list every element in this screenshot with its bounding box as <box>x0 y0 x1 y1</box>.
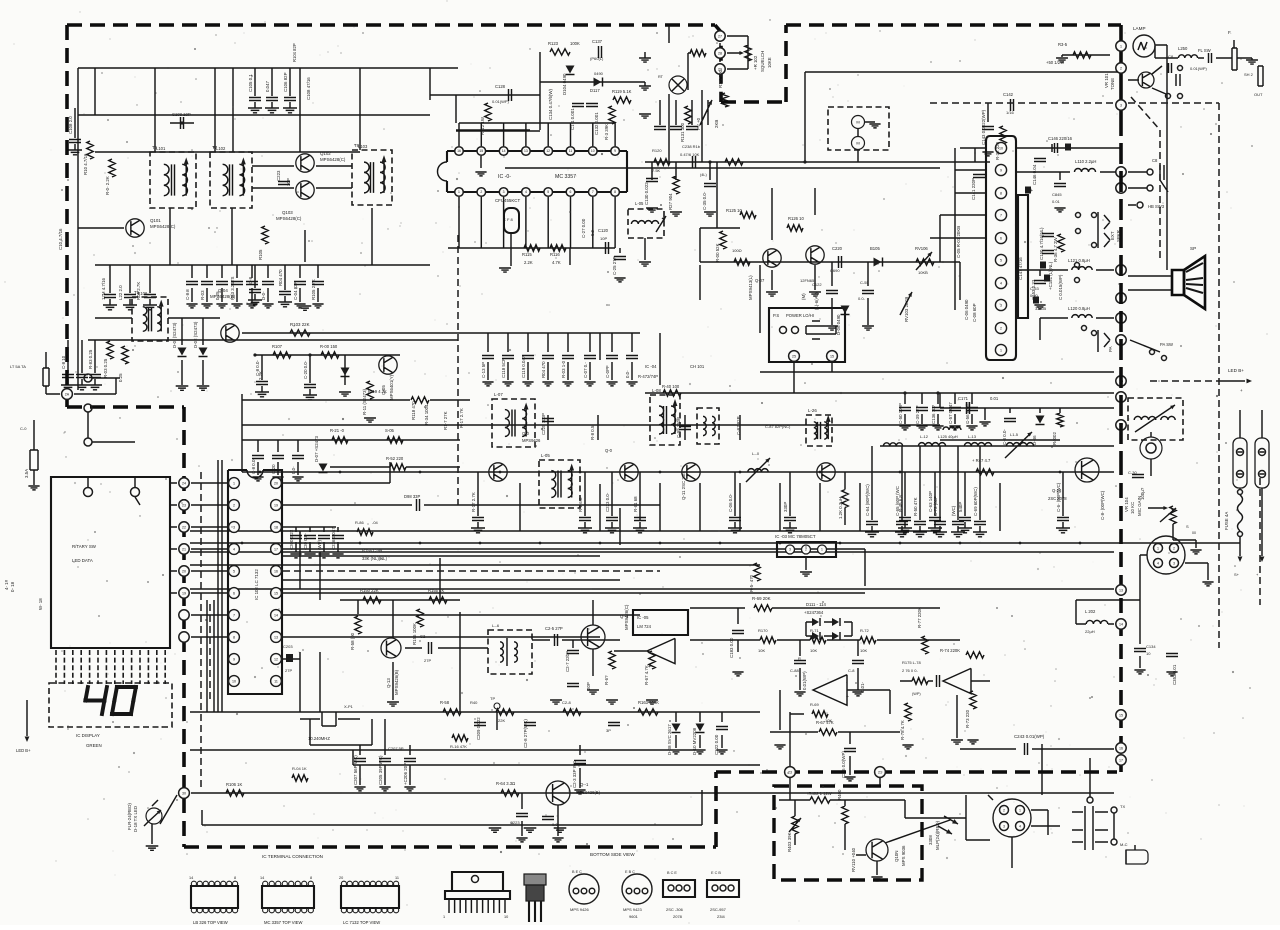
svg-text:12: 12 <box>274 657 278 661</box>
svg-text:FLR-24(RED): FLR-24(RED) <box>127 803 132 830</box>
svg-text:C-8 0.0-: C-8 0.0- <box>251 458 256 474</box>
svg-text:D-06 0490: D-06 0490 <box>836 314 841 335</box>
svg-text:2: 2 <box>1173 546 1175 550</box>
svg-text:R-73 220: R-73 220 <box>965 709 970 728</box>
svg-text:BOTTOM SIDE VIEW: BOTTOM SIDE VIEW <box>590 852 635 857</box>
svg-text:C103 10P: C103 10P <box>172 112 191 117</box>
svg-text:L-26: L-26 <box>808 408 817 413</box>
svg-text:D-0- (S2473): D-0- (S2473) <box>172 322 177 348</box>
svg-text:2: 2 <box>1003 808 1005 812</box>
svg-text:R125 10: R125 10 <box>726 208 743 213</box>
svg-text:R4002: R4002 <box>1052 432 1057 445</box>
svg-text:C 0.015(WP): C 0.015(WP) <box>1058 274 1063 300</box>
svg-text:C147 47/16: C147 47/16 <box>1018 257 1023 280</box>
svg-text:D-10 MV2208: D-10 MV2208 <box>692 727 697 755</box>
svg-text:R104 82P: R104 82P <box>292 43 297 62</box>
svg-text:MPS6428(C): MPS6428(C) <box>276 216 302 221</box>
svg-text:3: 3 <box>503 190 505 194</box>
svg-text:C108 2.0: C108 2.0 <box>68 116 73 134</box>
svg-text:C118 5CP: C118 5CP <box>501 358 506 378</box>
svg-text:7: 7 <box>1000 213 1002 217</box>
svg-text:C205 39P WC): C205 39P WC) <box>378 755 383 785</box>
svg-text:B C E: B C E <box>667 871 677 875</box>
svg-text:E C B: E C B <box>711 871 721 875</box>
svg-text:R-03 0.25: R-03 0.25 <box>103 358 108 378</box>
svg-text:0.0-: 0.0- <box>590 228 595 236</box>
svg-text:0.01(WP): 0.01(WP) <box>492 99 510 104</box>
svg-text:LED B+: LED B+ <box>1228 368 1244 373</box>
svg-text:+ R47 4.7: + R47 4.7 <box>972 458 991 463</box>
svg-text:8: 8 <box>1000 191 1002 195</box>
svg-text:0.01(WP): 0.01(WP) <box>802 671 807 690</box>
svg-text:3: 3 <box>233 525 235 529</box>
svg-text:C143 0.0022(WP): C143 0.0022(WP) <box>981 109 986 145</box>
svg-text:C207 56P(WC): C207 56P(WC) <box>353 755 358 785</box>
svg-text:C2-7 220P: C2-7 220P <box>565 651 570 672</box>
svg-text:2 76 0 0-: 2 76 0 0- <box>902 668 918 673</box>
svg-text:D-02 (S2473): D-02 (S2473) <box>193 321 198 348</box>
svg-text:L-05: L-05 <box>541 453 550 458</box>
svg-text:E B C: E B C <box>625 870 635 874</box>
svg-text:TP: TP <box>490 696 495 701</box>
svg-text:L101: L101 <box>156 146 166 151</box>
svg-text:0.0-: 0.0- <box>552 822 560 827</box>
svg-text:+R402 1 12W: +R402 1 12W <box>806 791 832 796</box>
svg-text:23: 23 <box>182 503 186 507</box>
svg-text:C-25 27P: C-25 27P <box>612 256 617 275</box>
svg-text:4: 4 <box>1019 824 1021 828</box>
svg-text:4: 4 <box>233 547 235 551</box>
svg-text:RV106: RV106 <box>915 246 928 251</box>
svg-text:L110 2.2µH: L110 2.2µH <box>1075 159 1096 164</box>
svg-text:D117: D117 <box>590 88 600 93</box>
svg-text:1: 1 <box>1157 546 1159 550</box>
svg-text:MIC GAIN: MIC GAIN <box>1137 496 1142 516</box>
svg-text:C-20: C-20 <box>271 464 276 474</box>
svg-text:R116: R116 <box>550 252 560 257</box>
svg-text:C-99 330P: C-99 330P <box>676 417 681 438</box>
svg-text:8: 8 <box>310 876 312 880</box>
svg-text:MPS9426(B): MPS9426(B) <box>576 790 601 795</box>
svg-text:C150 4.7/16(NL): C150 4.7/16(NL) <box>1039 227 1044 260</box>
svg-text:0.01(WP): 0.01(WP) <box>1190 66 1208 71</box>
svg-text:33//35: 33//35 <box>1035 306 1047 311</box>
svg-text:15: 15 <box>1119 713 1123 717</box>
svg-text:13: 13 <box>274 635 278 639</box>
svg-text:R119 5.1K: R119 5.1K <box>612 89 632 94</box>
svg-text:B E C: B E C <box>572 870 582 874</box>
svg-text:R126 10: R126 10 <box>788 216 805 221</box>
svg-text:S-05: S-05 <box>385 428 395 433</box>
svg-text:C-0: C-0 <box>20 426 27 431</box>
svg-text:TX: TX <box>1120 804 1125 809</box>
svg-text:14: 14 <box>502 149 506 153</box>
svg-text:C-27 0.00: C-27 0.00 <box>581 218 586 238</box>
svg-text:C8: C8 <box>1168 54 1174 59</box>
svg-text:C-87 82P(NC): C-87 82P(NC) <box>765 424 791 429</box>
svg-text:C690: C690 <box>830 268 840 273</box>
svg-text:C136 10?: C136 10? <box>931 404 936 424</box>
svg-text:16: 16 <box>1119 746 1123 750</box>
svg-text:R-21 -0: R-21 -0 <box>330 428 345 433</box>
svg-text:4: 4 <box>525 190 527 194</box>
svg-text:L125 40µH: L125 40µH <box>938 434 958 439</box>
svg-text:CH 101: CH 101 <box>690 364 705 369</box>
svg-text:22: 22 <box>182 525 186 529</box>
svg-text:IC 102 LC 7132: IC 102 LC 7132 <box>254 569 259 600</box>
svg-text:8: 8 <box>233 635 235 639</box>
svg-text:C-8 0.0-: C-8 0.0- <box>255 360 260 376</box>
svg-text:C236 0.047: C236 0.047 <box>331 527 336 550</box>
svg-text:23I4: 23I4 <box>717 914 726 919</box>
svg-text:R-8 0.5: R-8 0.5 <box>590 425 595 440</box>
svg-text:L1-5: L1-5 <box>1010 432 1019 437</box>
svg-text:17: 17 <box>274 547 278 551</box>
svg-text:0- 18: 0- 18 <box>10 581 15 592</box>
svg-text:R105: R105 <box>258 249 263 260</box>
svg-text:33K (NL)(NL): 33K (NL)(NL) <box>362 556 388 561</box>
svg-text:10: 10 <box>1146 651 1151 656</box>
svg-text:R27 904: R27 904 <box>668 193 673 210</box>
svg-text:SH 2: SH 2 <box>1244 72 1254 77</box>
svg-text:17M 4.7/16: 17M 4.7/16 <box>101 277 106 300</box>
svg-text:7: 7 <box>233 613 235 617</box>
svg-text:S+: S+ <box>1234 572 1240 577</box>
svg-text:L106: L106 <box>138 291 148 296</box>
svg-text:C-50 100P: C-50 100P <box>898 403 903 424</box>
svg-text:0490: 0490 <box>594 71 604 76</box>
svg-text:9: 9 <box>614 149 616 153</box>
svg-text:C119 0.047: C119 0.047 <box>521 355 526 378</box>
svg-text:9601: 9601 <box>629 914 639 919</box>
svg-text:R123: R123 <box>548 41 559 46</box>
svg-text:2.2K: 2.2K <box>524 260 533 265</box>
svg-text:R-3 39K: R-3 39K <box>604 124 609 140</box>
svg-text:1: 1 <box>1019 808 1021 812</box>
svg-text:1: 1 <box>1120 44 1122 48</box>
svg-text:C-55: C-55 <box>860 280 869 285</box>
svg-text:R118 470: R118 470 <box>411 401 416 420</box>
svg-text:C142: C142 <box>1003 92 1014 97</box>
svg-text:0.01-: 0.01- <box>860 681 865 692</box>
svg-text:R-04 1K: R-04 1K <box>292 766 307 771</box>
svg-text:C353 0.01: C353 0.01 <box>1172 664 1177 685</box>
svg-text:C-53: C-53 <box>1030 286 1039 291</box>
svg-text:+C206 20P: +C206 20P <box>403 763 408 785</box>
svg-text:R-17 2.7K: R-17 2.7K <box>471 492 476 512</box>
svg-text:10K: 10K <box>758 648 765 653</box>
svg-text:16: 16 <box>457 149 461 153</box>
svg-text:C845: C845 <box>1052 192 1062 197</box>
svg-text:1: 1 <box>821 548 823 552</box>
svg-text:20: 20 <box>274 481 278 485</box>
svg-text:C2-5 27P: C2-5 27P <box>545 626 563 631</box>
svg-text:-04: -04 <box>372 520 379 525</box>
svg-text:C-0PF: C-0PF <box>605 365 610 378</box>
svg-text:R-2 6.8: R-2 6.8 <box>578 497 583 512</box>
svg-text:3.5A: 3.5A <box>24 469 29 478</box>
svg-text:22K: 22K <box>498 718 505 723</box>
svg-text:IC -04: IC -04 <box>645 364 657 369</box>
svg-text:(L)-6(AL): (L)-6(AL) <box>814 292 819 310</box>
svg-text:(WP): (WP) <box>912 692 921 696</box>
svg-text:2: 2 <box>480 190 482 194</box>
svg-text:10K: 10K <box>860 648 867 653</box>
svg-text:C-13 5P: C-13 5P <box>481 362 486 378</box>
svg-text:R170: R170 <box>758 628 768 633</box>
svg-text:C-72 (80P: C-72 (80P <box>933 496 938 516</box>
svg-text:M: M <box>856 119 859 124</box>
svg-text:C2-3 33P WC: C2-3 33P WC <box>572 761 577 788</box>
svg-text:R-86: R-86 <box>355 520 364 525</box>
svg-text:L--0: L--0 <box>752 451 760 456</box>
svg-text:R1-1 500: R1-1 500 <box>718 69 723 88</box>
svg-text:IC -0-: IC -0- <box>498 174 511 180</box>
svg-text:3: 3 <box>1003 824 1005 828</box>
svg-text:2078: 2078 <box>673 914 683 919</box>
svg-text:11: 11 <box>274 679 278 683</box>
svg-text:+: + <box>648 664 651 670</box>
svg-text:27P: 27P <box>285 668 292 673</box>
svg-text:C-30: C-30 <box>1128 470 1137 475</box>
svg-text:0.0-: 0.0- <box>291 466 296 474</box>
svg-text:R-58: R-58 <box>440 700 450 705</box>
svg-text:R-50 47K: R-50 47K <box>913 497 918 516</box>
svg-text:C220: C220 <box>832 246 843 251</box>
svg-text:L102: L102 <box>216 146 226 151</box>
svg-text:EXT: EXT <box>1110 231 1115 240</box>
svg-text:0.25: 0.25 <box>215 291 220 300</box>
svg-text:10: 10 <box>232 679 236 683</box>
svg-text:00: 00 <box>1192 531 1196 535</box>
svg-text:C-8 10: C-8 10 <box>61 355 66 369</box>
svg-text:R-0- 2.2K: R-0- 2.2K <box>105 176 110 195</box>
svg-text:TONE: TONE <box>1110 78 1115 90</box>
svg-text:D-07 +S2473: D-07 +S2473 <box>314 435 319 462</box>
svg-text:PA SW: PA SW <box>1160 342 1173 347</box>
svg-text:2: 2 <box>805 548 807 552</box>
svg-text:L-13: L-13 <box>968 434 977 439</box>
svg-text:C2--: C2-- <box>420 634 429 639</box>
svg-text:C183 0.00: C183 0.00 <box>729 637 734 658</box>
svg-text:C146 0.04: C146 0.04 <box>1032 164 1037 185</box>
svg-text:IC DISPLAY: IC DISPLAY <box>76 733 100 738</box>
svg-text:+S247364: +S247364 <box>804 610 824 615</box>
svg-text:R-74 220K: R-74 220K <box>940 648 960 653</box>
svg-text:Q10N: Q10N <box>894 851 899 862</box>
svg-text:L-08: L-08 <box>652 388 661 393</box>
svg-text:C122: C122 <box>812 282 822 287</box>
svg-text:R-32 220: R-32 220 <box>995 141 1000 160</box>
svg-text:C-39 27P: C-39 27P <box>915 405 920 424</box>
svg-text:10: 10 <box>504 915 508 919</box>
svg-text:1.2K 0.3µH: 1.2K 0.3µH <box>838 497 843 519</box>
svg-text:Q101: Q101 <box>150 218 161 223</box>
svg-text:C2-6 0.0(WP): C2-6 0.0(WP) <box>841 751 846 778</box>
svg-text:30: 30 <box>182 791 186 795</box>
svg-text:0.01: 0.01 <box>990 396 999 401</box>
svg-text:R400: R400 <box>837 789 842 800</box>
svg-text:C-07 0.-: C-07 0.- <box>583 362 588 378</box>
svg-text:3P: 3P <box>606 728 611 733</box>
svg-text:L121 0.8µH: L121 0.8µH <box>1068 258 1090 263</box>
svg-text:R115: R115 <box>522 252 532 257</box>
svg-text:C120: C120 <box>598 228 609 233</box>
svg-text:4- 1#: 4- 1# <box>4 579 9 590</box>
svg-text:Q-13: Q-13 <box>386 678 391 688</box>
svg-text:C2-8 27P(WC): C2-8 27P(WC) <box>523 719 528 748</box>
svg-text:R-03: R-03 <box>200 290 205 300</box>
svg-text:L120 0.8µH: L120 0.8µH <box>1068 306 1090 311</box>
svg-text:1: 1 <box>443 915 445 919</box>
svg-text:MLP(24)(RED): MLP(24)(RED) <box>935 820 940 850</box>
svg-text:LED B+: LED B+ <box>16 748 31 753</box>
svg-text:LB 326 TOP VIEW: LB 326 TOP VIEW <box>193 920 228 925</box>
svg-text:R106 1K: R106 1K <box>226 782 243 787</box>
svg-text:R: R <box>798 656 801 661</box>
svg-text:D104 0490: D104 0490 <box>562 73 567 95</box>
svg-text:C203: C203 <box>283 644 293 649</box>
svg-text:8: 8 <box>614 190 616 194</box>
svg-text:20: 20 <box>182 569 186 573</box>
svg-text:R-00 52K: R-00 52K <box>715 243 720 262</box>
svg-text:3: 3 <box>1120 103 1122 107</box>
svg-text:SP: SP <box>1190 246 1196 251</box>
svg-text:C209 0.022: C209 0.022 <box>476 717 481 740</box>
svg-text:C137: C137 <box>592 39 603 44</box>
svg-text:R150 22K: R150 22K <box>360 588 379 593</box>
svg-text:C-69 60P(WC): C-69 60P(WC) <box>973 487 978 516</box>
svg-text:R-83 0.25: R-83 0.25 <box>88 349 93 369</box>
svg-text:R-40 100: R-40 100 <box>662 384 680 389</box>
svg-text:0.0-: 0.0- <box>625 370 630 378</box>
svg-text:14: 14 <box>189 876 193 880</box>
svg-text:10KB: 10KB <box>918 270 928 275</box>
svg-text:MPS9413(L): MPS9413(L) <box>748 275 753 300</box>
svg-text:10K: 10K <box>810 648 817 653</box>
svg-text:3308: 3308 <box>928 835 933 845</box>
svg-text:9: 9 <box>1000 168 1002 172</box>
svg-text:13: 13 <box>524 149 528 153</box>
svg-text:6: 6 <box>233 591 235 595</box>
svg-text:R155 1K: R155 1K <box>428 588 445 593</box>
svg-text:D-0-: D-0- <box>261 291 266 300</box>
svg-text:LED DATA: LED DATA <box>72 558 93 563</box>
svg-text:21: 21 <box>878 770 882 774</box>
svg-text:MPS6428(C): MPS6428(C) <box>320 157 346 162</box>
svg-text:R-72: R-72 <box>860 628 869 633</box>
svg-text:Q102: Q102 <box>320 151 331 156</box>
svg-text:330P: 330P <box>783 502 788 512</box>
svg-text:20P: 20P <box>586 682 591 690</box>
svg-text:R131 300: R131 300 <box>680 122 685 142</box>
svg-text:C223: C223 <box>276 170 281 181</box>
svg-text:C-35 0.0-: C-35 0.0- <box>702 191 707 210</box>
svg-text:540P: 540P <box>958 502 963 512</box>
svg-text:C171: C171 <box>958 396 969 401</box>
svg-text:D-18 TX LED: D-18 TX LED <box>133 806 138 832</box>
svg-text:2SC-957: 2SC-957 <box>710 907 727 912</box>
svg-text:D98 33P: D98 33P <box>404 494 421 499</box>
svg-text:D-08 SVC 2617: D-08 SVC 2617 <box>667 724 672 755</box>
svg-text:R40: R40 <box>470 700 478 705</box>
svg-text:R403 39K: R403 39K <box>787 832 792 852</box>
svg-text:6: 6 <box>1000 236 1002 240</box>
svg-text:28: 28 <box>718 51 722 55</box>
svg-text:MPS9426(C): MPS9426(C) <box>624 604 629 630</box>
svg-text:IC TERMINAL CONNECTION: IC TERMINAL CONNECTION <box>262 854 323 859</box>
svg-text:21: 21 <box>182 547 186 551</box>
svg-text:Q-0: Q-0 <box>605 448 613 453</box>
svg-text:C-6- (00P(WC): C-6- (00P(WC) <box>1056 482 1061 512</box>
svg-text:C-06 0.0-: C-06 0.0- <box>728 493 733 512</box>
svg-text:LC 7132 TOP VIEW: LC 7132 TOP VIEW <box>343 920 380 925</box>
svg-text:(WP): (WP) <box>317 539 322 550</box>
svg-text:PA: PA <box>1108 346 1113 352</box>
svg-text:C207 5P: C207 5P <box>388 746 404 751</box>
svg-text:9: 9 <box>233 657 235 661</box>
svg-text:C-06 0490: C-06 0490 <box>964 299 969 320</box>
svg-text:7.5K: 7.5K <box>652 168 661 173</box>
svg-text:10: 10 <box>591 149 595 153</box>
svg-text:GREEN: GREEN <box>86 743 102 748</box>
svg-text:1: 1 <box>458 190 460 194</box>
svg-text:R1-7 27K: R1-7 27K <box>443 411 448 430</box>
svg-text:R-11 (S2473): R-11 (S2473) <box>362 388 367 415</box>
svg-text:C130 0.022: C130 0.022 <box>644 182 649 205</box>
svg-text:R-03 1-0: R-03 1-0 <box>561 360 566 378</box>
svg-text:0.047: 0.047 <box>265 80 270 92</box>
svg-text:10 KC: 10 KC <box>1130 502 1135 514</box>
svg-text:8: 8 <box>234 876 236 880</box>
svg-text:R-67 47K: R-67 47K <box>816 720 834 725</box>
svg-text:7: 7 <box>592 190 594 194</box>
svg-text:LAMP: LAMP <box>1133 26 1146 31</box>
svg-text:MPS9426: MPS9426 <box>522 438 541 443</box>
svg-text:15: 15 <box>830 354 834 358</box>
svg-text:D-36: D-36 <box>1032 435 1037 445</box>
svg-text:100K: 100K <box>570 41 580 46</box>
svg-text:MPS 9423: MPS 9423 <box>623 907 642 912</box>
svg-text:L-07: L-07 <box>494 392 503 397</box>
svg-text:C146 220/16: C146 220/16 <box>1048 136 1073 141</box>
svg-text:LT 5A TA: LT 5A TA <box>10 364 26 369</box>
svg-text:+R 102: +R 102 <box>753 55 758 70</box>
svg-text:C-20 0.0-: C-20 0.0- <box>303 360 308 379</box>
svg-text:R-16 47K: R-16 47K <box>450 744 467 749</box>
svg-text:2A: 2A <box>65 392 70 396</box>
svg-text:M-C: M-C <box>1120 842 1128 847</box>
svg-text:M: M <box>856 140 859 145</box>
svg-text:5: 5 <box>1000 258 1002 262</box>
svg-text:+: + <box>846 694 849 700</box>
svg-text:C1-1 0.001: C1-1 0.001 <box>570 108 575 130</box>
svg-text:17: 17 <box>1119 758 1123 762</box>
svg-text:4: 4 <box>1157 561 1159 565</box>
svg-text:19: 19 <box>182 591 186 595</box>
svg-text:Q-07: Q-07 <box>755 278 765 283</box>
svg-text:R-61 68: R-61 68 <box>633 496 638 512</box>
svg-text:C-56 800/6: C-56 800/6 <box>965 402 970 424</box>
svg-text:W- 18: W- 18 <box>38 598 43 610</box>
svg-text:C-57 0.047: C-57 0.047 <box>948 402 953 424</box>
svg-text:L22 2.0: L22 2.0 <box>118 285 123 300</box>
svg-text:FL SW: FL SW <box>1198 48 1211 53</box>
svg-text:L-12: L-12 <box>920 434 929 439</box>
svg-text:(WC): (WC) <box>951 505 956 516</box>
svg-text:R107: R107 <box>272 344 283 349</box>
svg-text:R-52 220: R-52 220 <box>386 456 404 461</box>
